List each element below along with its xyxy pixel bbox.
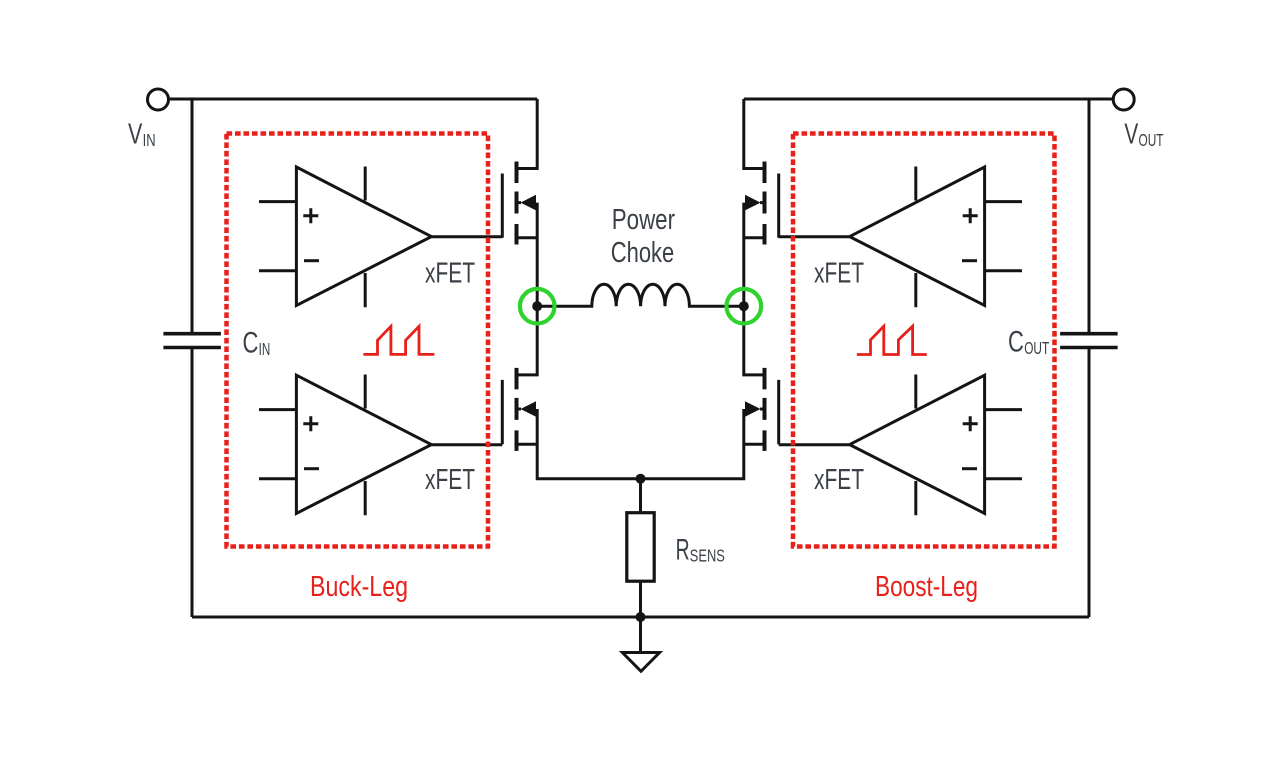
- wire bottom rail: [192, 616, 1089, 619]
- label CIN: [243, 327, 271, 360]
- node ground rail dot: [636, 612, 646, 622]
- op-amp U1 power pins: [364, 167, 367, 308]
- terminal VOUT: [1113, 89, 1134, 110]
- transistor Q2 source: [517, 443, 538, 446]
- transistor Q4 body wire: [641, 409, 765, 479]
- op-amp U1 minus: [304, 259, 319, 262]
- svg-text:C: C: [1008, 326, 1024, 359]
- wire U1 output to Q1 gate: [431, 235, 502, 238]
- svg-text:OUT: OUT: [1024, 338, 1049, 358]
- wire top-right rail: [744, 98, 1113, 101]
- transistor Q4 source: [744, 443, 765, 446]
- svg-text:Power: Power: [612, 204, 675, 236]
- PWM waveform right: [857, 326, 927, 354]
- op-amp U2 plus: [303, 416, 318, 431]
- op-amp U4 input wires: [985, 410, 1022, 479]
- terminal VIN: [148, 89, 169, 110]
- svg-text:xFET: xFET: [425, 258, 475, 290]
- svg-text:IN: IN: [143, 130, 156, 150]
- op-amp U2 minus: [304, 467, 319, 470]
- op-amp U3 input wires: [985, 202, 1022, 271]
- transistor Q3 body arrow: [745, 195, 761, 211]
- transistor Q3 drain: [744, 99, 765, 169]
- op-amp U2 input wires: [259, 410, 296, 479]
- node SW left dot: [532, 301, 542, 311]
- transistor Q4 gate: [777, 380, 780, 444]
- wire top-left rail: [169, 98, 538, 101]
- transistor Q4 body arrow: [745, 401, 761, 417]
- op-amp U4 power pins: [914, 375, 917, 516]
- op-amp U1 input wires: [259, 202, 296, 271]
- wire left drop lower: [191, 348, 194, 618]
- svg-text:IN: IN: [259, 339, 271, 359]
- svg-text:xFET: xFET: [814, 258, 864, 290]
- transistor Q1 body wire: [517, 203, 538, 307]
- label RSENS: [676, 533, 725, 566]
- transistor Q4 drain: [744, 306, 765, 375]
- wire right drop upper: [1088, 99, 1091, 334]
- svg-text:Buck-Leg: Buck-Leg: [310, 571, 408, 603]
- wire right drop lower: [1088, 348, 1091, 618]
- resistor RSENS: [627, 513, 654, 582]
- op-amp U3 power pins: [914, 167, 917, 308]
- svg-text:Boost-Leg: Boost-Leg: [875, 571, 978, 603]
- op-amp U1 plus: [303, 208, 318, 223]
- wire RSENS to bottom rail: [639, 581, 642, 617]
- Boost-Leg dashed box: [793, 134, 1055, 547]
- wire U2 output to Q2 gate: [431, 443, 502, 446]
- capacitor COUT: [1060, 334, 1118, 348]
- op-amp U4 plus: [963, 416, 978, 431]
- svg-text:OUT: OUT: [1139, 130, 1164, 150]
- transistor Q3 channel: [763, 162, 767, 245]
- op-amp U3 minus: [962, 259, 977, 262]
- op-amp U4 triangle: [850, 375, 985, 513]
- op-amp U3 triangle: [850, 167, 985, 305]
- transistor Q1 gate: [501, 174, 504, 238]
- transistor Q1 source: [517, 236, 538, 239]
- wire U3 output to Q3 gate: [779, 235, 850, 238]
- wire left drop upper: [191, 99, 194, 334]
- transistor Q3 gate: [777, 174, 780, 238]
- svg-text:SENS: SENS: [690, 546, 725, 566]
- transistor Q1 channel: [515, 162, 519, 245]
- op-amp U3 plus: [963, 208, 978, 223]
- op-amp U4 minus: [962, 467, 977, 470]
- label VOUT: [1124, 119, 1163, 151]
- Buck-Leg dashed box: [227, 134, 489, 547]
- op-amp U2 power pins: [364, 375, 367, 516]
- wire U4 output to Q4 gate: [779, 443, 850, 446]
- transistor Q3 source: [744, 236, 765, 239]
- wire SW node to RSENS: [639, 479, 642, 513]
- svg-text:C: C: [243, 327, 259, 360]
- label COUT: [1008, 326, 1049, 359]
- op-amp U2 triangle: [296, 375, 431, 513]
- svg-text:Choke: Choke: [611, 237, 674, 269]
- node SW right green ring: [727, 289, 762, 324]
- wire rail to ground: [639, 617, 642, 653]
- transistor Q3 body wire: [744, 203, 765, 307]
- op-amp U1 triangle: [296, 167, 431, 305]
- svg-text:V: V: [1124, 119, 1138, 151]
- transistor Q2 drain: [517, 306, 538, 375]
- capacitor CIN: [163, 334, 221, 348]
- label VIN: [128, 119, 156, 151]
- svg-text:xFET: xFET: [814, 464, 864, 496]
- node RSENS top dot: [636, 474, 646, 484]
- transistor Q1 body arrow: [521, 195, 537, 211]
- transistor Q2 channel: [515, 368, 519, 451]
- PWM waveform left: [363, 326, 434, 354]
- transistor Q2 body arrow: [521, 401, 537, 417]
- inductor L1 Power Choke: [537, 284, 744, 306]
- node SW right dot: [739, 301, 749, 311]
- transistor Q2 body wire: [517, 409, 641, 479]
- ground: [622, 653, 659, 672]
- svg-text:V: V: [128, 119, 143, 151]
- transistor Q2 gate: [501, 380, 504, 444]
- transistor Q1 drain: [517, 99, 538, 169]
- transistor Q4 channel: [763, 368, 767, 451]
- svg-text:xFET: xFET: [425, 464, 475, 496]
- svg-text:R: R: [676, 533, 690, 566]
- node SW left green ring: [520, 289, 555, 324]
